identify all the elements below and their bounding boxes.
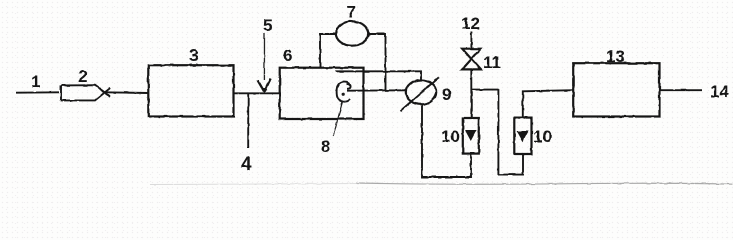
branch wire to restrictor 10R: [471, 90, 523, 175]
svg-text:10: 10: [533, 127, 552, 146]
branch wire 4: [247, 93, 249, 148]
wire restrictor 10R to box 13: [523, 90, 573, 117]
svg-text:14: 14: [710, 82, 729, 101]
svg-text:4: 4: [241, 154, 252, 175]
wire bypass (box 6 top to gauge 9 top): [336, 71, 421, 80]
svg-text:7: 7: [347, 3, 356, 22]
box 13: [573, 63, 659, 116]
wire detector to pump 9: [347, 89, 406, 91]
svg-text:3: 3: [189, 46, 198, 65]
svg-text:6: 6: [283, 46, 292, 65]
svg-text:2: 2: [78, 67, 87, 86]
svg-text:9: 9: [442, 85, 451, 104]
svg-text:13: 13: [606, 47, 625, 66]
detector 8 (inside box 6): [337, 82, 351, 102]
arrow 5: [258, 33, 271, 93]
gauge 9: [401, 77, 439, 111]
restrictor 10L: [463, 118, 479, 154]
svg-text:8: 8: [321, 137, 330, 156]
wire gauge 9 down and U to restrictor 10L: [422, 104, 471, 177]
wire pump 7 right lead: [368, 34, 385, 90]
scan artifact line (bottom): [356, 183, 733, 184]
svg-text:5: 5: [263, 16, 272, 35]
restrictor 10R: [514, 118, 531, 154]
valve 11: [462, 49, 481, 70]
box 3: [148, 65, 233, 116]
wire 3 to 6: [234, 92, 282, 94]
svg-text:10: 10: [441, 127, 460, 146]
svg-text:11: 11: [483, 53, 501, 72]
wire 14 (outlet): [660, 89, 703, 91]
box 6: [280, 68, 364, 119]
pump 7: [336, 21, 368, 45]
wire restrictor 10L top to valve 11: [470, 70, 472, 119]
wire 1 (inlet line): [16, 91, 59, 93]
wire valve 11 to 12: [470, 32, 472, 49]
svg-text:1: 1: [31, 72, 40, 91]
wire 2 to 3: [104, 91, 148, 94]
injector 2: [61, 85, 110, 100]
pointer line for label 8: [333, 101, 343, 137]
svg-text:12: 12: [461, 14, 480, 33]
wire pump 7 left lead: [320, 34, 336, 68]
